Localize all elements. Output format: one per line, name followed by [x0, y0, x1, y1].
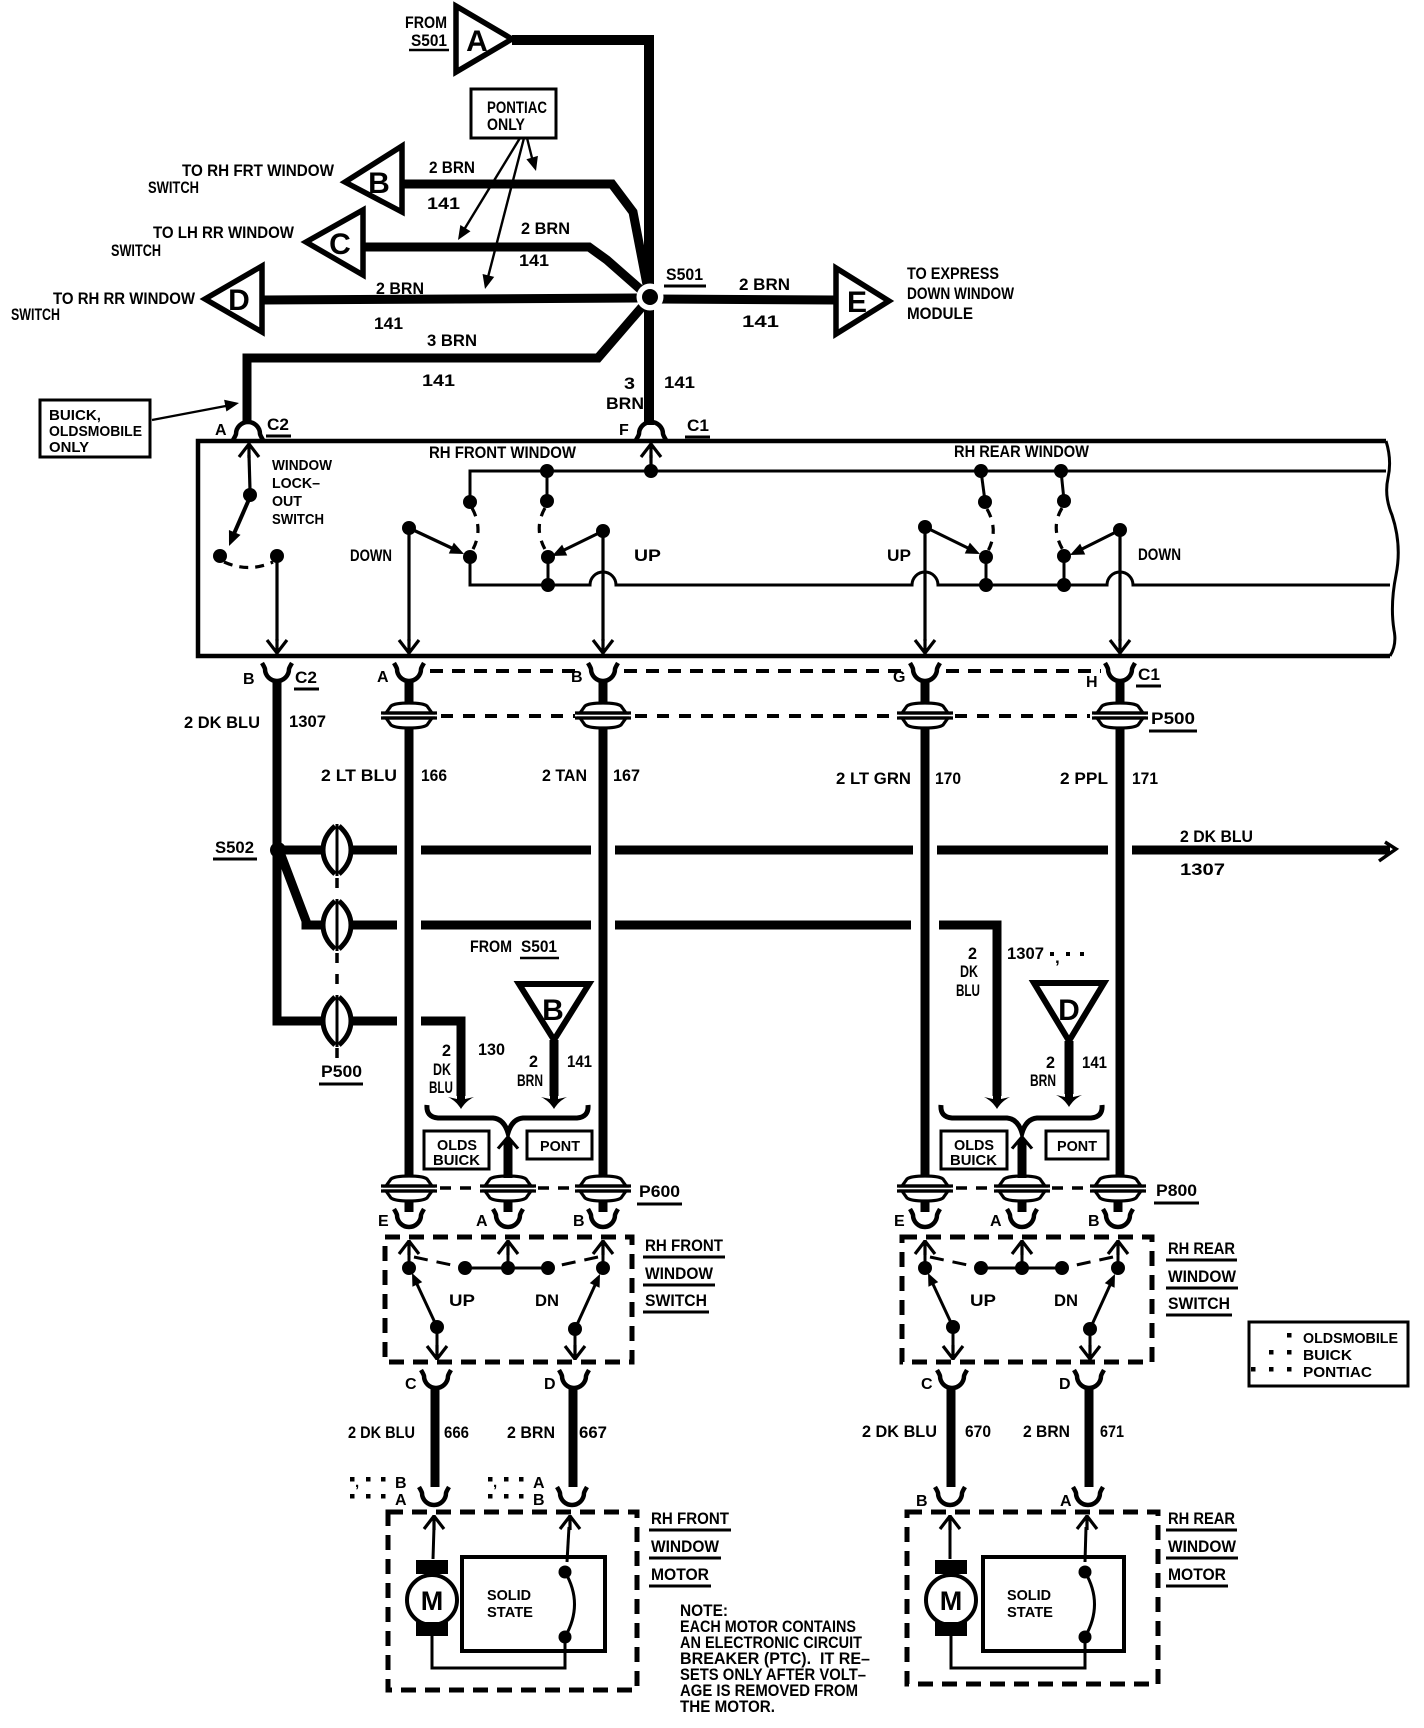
splice S501 — [637, 284, 664, 311]
label 2 DK BLU / 130 (front drop) — [429, 1040, 505, 1097]
svg-text:B: B — [916, 1493, 928, 1510]
svg-text:RH REAR WINDOW: RH REAR WINDOW — [954, 442, 1090, 461]
C1 feed entry arrow into box — [641, 443, 661, 471]
svg-text:2: 2 — [529, 1052, 538, 1071]
rear switch common bar — [918, 1261, 1125, 1275]
svg-text:A: A — [476, 1213, 488, 1230]
svg-text:DOWN WINDOW: DOWN WINDOW — [907, 284, 1015, 303]
svg-text:B: B — [533, 1492, 545, 1509]
label FROM S501 — [405, 13, 449, 50]
front switch output cups C D — [405, 1370, 451, 1393]
svg-text:TO RH RR WINDOW: TO RH RR WINDOW — [53, 289, 196, 308]
svg-text:B: B — [542, 994, 564, 1027]
label 2 BRN 667 — [507, 1423, 607, 1442]
label 2 BRN 141 (wire B) — [427, 158, 475, 213]
svg-text:THE MOTOR.: THE MOTOR. — [680, 1697, 775, 1716]
svg-text:D: D — [1059, 1376, 1071, 1393]
svg-text:F: F — [619, 422, 629, 439]
svg-text:BUICK: BUICK — [433, 1152, 480, 1169]
label WINDOW LOCK-OUT SWITCH — [272, 457, 333, 528]
svg-text:E: E — [847, 286, 867, 319]
svg-text:2 DK BLU: 2 DK BLU — [348, 1423, 415, 1442]
svg-text:667: 667 — [579, 1423, 607, 1442]
svg-text:2: 2 — [1046, 1053, 1055, 1072]
front DOWN throw arm and output — [399, 521, 467, 654]
svg-text:TO EXPRESS: TO EXPRESS — [907, 264, 999, 283]
svg-text:670: 670 — [965, 1422, 991, 1441]
svg-text:RH REAR: RH REAR — [1168, 1509, 1235, 1528]
svg-text:MODULE: MODULE — [907, 304, 973, 323]
svg-text:MOTOR: MOTOR — [1168, 1565, 1226, 1584]
svg-text:BUICK: BUICK — [950, 1152, 997, 1169]
window lockout switch blade — [223, 497, 250, 548]
svg-text:BUICK: BUICK — [1303, 1347, 1352, 1364]
wire 2 DK BLU 666 — [431, 1387, 440, 1487]
svg-text:BLU: BLU — [956, 981, 980, 1000]
svg-text:141: 141 — [742, 312, 779, 331]
label 2 PPL 171 — [1060, 769, 1158, 788]
inline connector P500 (bus 3) — [323, 995, 351, 1047]
svg-text:171: 171 — [1132, 769, 1158, 788]
svg-text:WINDOW: WINDOW — [1168, 1267, 1237, 1286]
inline connector P600 pin A — [480, 1176, 536, 1201]
inline connector P500 pin G — [897, 703, 953, 728]
svg-text:OLDSMOBILE: OLDSMOBILE — [49, 423, 142, 440]
motor M2 (rear) — [926, 1560, 976, 1636]
svg-text:FROM: FROM — [470, 937, 512, 956]
svg-text:A: A — [215, 422, 227, 439]
svg-text:166: 166 — [421, 766, 447, 785]
connector half pin H — [1086, 663, 1135, 691]
label FROM S501 — [470, 937, 559, 958]
switch feed top rail — [470, 464, 1386, 502]
dashed P500 plane vertical — [335, 878, 339, 1058]
svg-text:WINDOW: WINDOW — [645, 1264, 714, 1283]
inline connector P800 pin E — [897, 1176, 953, 1201]
svg-text:P500: P500 — [321, 1062, 362, 1081]
wire E 2 BRN 141 — [655, 299, 836, 300]
RH front window dashed throw arcs — [472, 508, 546, 551]
svg-text:2 BRN: 2 BRN — [521, 219, 570, 238]
dashed connector-row line — [430, 669, 1101, 673]
wire H down to P800 — [1116, 728, 1125, 1176]
svg-text:BUICK,: BUICK, — [49, 407, 101, 424]
svg-text:A: A — [395, 1492, 407, 1509]
label RH FRONT WINDOW SWITCH — [643, 1236, 725, 1312]
P800 cup pins E A B — [894, 1200, 940, 1230]
svg-text:RH FRONT: RH FRONT — [645, 1236, 724, 1255]
svg-text:OLDSMOBILE: OLDSMOBILE — [1303, 1330, 1398, 1347]
svg-text:PONT: PONT — [1057, 1138, 1097, 1155]
svg-text:SWITCH: SWITCH — [148, 178, 199, 197]
wire from S502 to front feed (bottom) — [277, 855, 474, 1109]
svg-text:C: C — [921, 1376, 933, 1393]
svg-text:D: D — [544, 1376, 556, 1393]
svg-text:A: A — [466, 25, 488, 58]
front switch throw blades — [407, 1271, 447, 1360]
motor bottom wire (front) — [432, 1636, 565, 1668]
RH rear window dashed throw arcs — [987, 508, 1063, 551]
svg-text:2 LT BLU: 2 LT BLU — [321, 766, 397, 785]
svg-text:SOLID: SOLID — [487, 1587, 531, 1604]
merge brace (front) — [427, 1105, 588, 1133]
svg-text:1307: 1307 — [1007, 944, 1044, 963]
rear UP throw arm and output — [915, 520, 983, 654]
wire D 2 BRN 141 — [262, 298, 645, 300]
svg-text:C2: C2 — [267, 415, 289, 434]
connector half C2 (top, pin A) — [215, 415, 291, 440]
label S502 — [213, 838, 257, 859]
connector triangle D (rear feed) — [1034, 983, 1104, 1041]
labels UP DN (rear switch) — [970, 1291, 1078, 1310]
label TO LH RR WINDOW SWITCH — [111, 223, 295, 260]
svg-text:S501: S501 — [521, 937, 557, 956]
svg-text:ONLY: ONLY — [487, 115, 526, 134]
make legend box — [1249, 1322, 1408, 1386]
svg-text:671: 671 — [1100, 1422, 1124, 1441]
motor entry arrows — [424, 1515, 580, 1562]
svg-text:E: E — [378, 1213, 389, 1230]
wire from A to S501 (2 BRN vertical trunk) — [512, 40, 649, 425]
svg-text:STATE: STATE — [487, 1604, 533, 1621]
svg-text:DK: DK — [433, 1060, 452, 1079]
label RH REAR WINDOW SWITCH — [1166, 1239, 1238, 1315]
svg-text:P600: P600 — [639, 1182, 680, 1201]
lockout output wire to pin B — [267, 559, 287, 654]
NOTE text block — [680, 1601, 870, 1716]
connector half C1 (top, pin F) — [619, 416, 710, 440]
wire 2 BRN 141 from triangle D — [1056, 1041, 1082, 1107]
svg-text:C1: C1 — [687, 416, 709, 435]
svg-text:SOLID: SOLID — [1007, 1587, 1051, 1604]
wire B down to P600 — [599, 728, 608, 1176]
svg-text:C2: C2 — [295, 668, 317, 687]
motor M1 (front) — [407, 1560, 457, 1636]
label S501 — [664, 265, 706, 286]
wire A down to P600 — [405, 728, 414, 1176]
svg-text:WINDOW: WINDOW — [1168, 1537, 1237, 1556]
svg-text:C1: C1 — [1138, 665, 1160, 684]
OLDS BUICK tag box (front) — [424, 1131, 489, 1169]
svg-text:A: A — [990, 1213, 1002, 1230]
svg-text:2 BRN: 2 BRN — [507, 1423, 555, 1442]
label 2 TAN 167 — [542, 766, 640, 785]
label P600 — [637, 1182, 682, 1204]
RH rear window switch dashed box — [902, 1237, 1152, 1362]
merged stub to pin A (rear) — [1012, 1136, 1032, 1178]
svg-text:DK: DK — [960, 962, 979, 981]
wire 2 DK BLU 1307 bus (top) — [284, 842, 1396, 861]
svg-text:RH REAR: RH REAR — [1168, 1239, 1235, 1258]
svg-text:E: E — [894, 1213, 905, 1230]
svg-text:130: 130 — [478, 1040, 505, 1059]
wire C 2 BRN 141 — [363, 247, 648, 296]
svg-text:SWITCH: SWITCH — [1168, 1294, 1230, 1313]
label 2 DK BLU 1307 (bus right) — [1180, 827, 1253, 879]
RH rear window switch pivots — [978, 471, 1071, 509]
svg-text:SWITCH: SWITCH — [11, 305, 60, 324]
svg-text:UP: UP — [634, 546, 661, 565]
svg-text:WINDOW: WINDOW — [651, 1537, 720, 1556]
callout arrow to wire D — [479, 138, 524, 290]
front switch open-contact ticks — [414, 1257, 598, 1267]
svg-text:UP: UP — [449, 1291, 475, 1310]
svg-text:B: B — [368, 167, 390, 200]
svg-text:FROM: FROM — [405, 13, 447, 32]
label 2 BRN 141 (wire D) — [374, 279, 424, 333]
front switch common bar — [402, 1261, 610, 1275]
svg-text:P500: P500 — [1151, 709, 1195, 728]
svg-text:B: B — [1088, 1213, 1100, 1230]
PTC breaker contacts (front) — [559, 1566, 575, 1644]
PONT tag box (front) — [527, 1131, 592, 1159]
window lockout switch pivot — [243, 488, 257, 502]
svg-text:S502: S502 — [215, 838, 254, 857]
RH front window switch pivots — [463, 471, 554, 509]
connector half pin A — [377, 663, 424, 686]
splice S502 — [270, 842, 286, 858]
label 2 BRN 671 — [1023, 1422, 1124, 1441]
svg-text:LOCK–: LOCK– — [272, 475, 320, 492]
svg-text:2 PPL: 2 PPL — [1060, 769, 1108, 788]
svg-text:SWITCH: SWITCH — [111, 241, 161, 260]
connector triangle B — [345, 146, 402, 212]
rear switch throw blades — [923, 1271, 963, 1360]
svg-text:PONT: PONT — [540, 1138, 580, 1155]
svg-text:141: 141 — [567, 1052, 592, 1071]
label 2 BRN 141 (front drop) — [517, 1052, 592, 1090]
inline connector P800 pin B — [1090, 1176, 1146, 1201]
svg-text:DN: DN — [1054, 1291, 1078, 1310]
wire 3 BRN 141 to C2 — [247, 300, 648, 424]
front motor input cups — [419, 1487, 587, 1505]
connector triangle E — [836, 268, 889, 334]
svg-text:3: 3 — [624, 374, 635, 393]
svg-text:M: M — [940, 1586, 963, 1616]
label 2 DK BLU 1307 (lockout wire) — [184, 712, 326, 732]
svg-text:167: 167 — [613, 766, 640, 785]
label P500 (mid) — [319, 1062, 363, 1084]
svg-text:2: 2 — [442, 1041, 451, 1060]
label 2 LT BLU 166 — [321, 766, 447, 785]
svg-text:DOWN: DOWN — [350, 546, 392, 565]
svg-text:MOTOR: MOTOR — [651, 1565, 709, 1584]
make-code pin marks (right wire) — [488, 1474, 545, 1509]
P600 cup pins E A B — [378, 1200, 424, 1230]
svg-text:ONLY: ONLY — [49, 439, 89, 456]
svg-text:BRN: BRN — [606, 394, 644, 413]
inline connector P500 (bus 2) — [323, 899, 351, 951]
master switch box outline (torn right edge) — [198, 441, 1398, 656]
svg-text:B: B — [243, 671, 255, 688]
dashed P500 plane line — [441, 714, 1090, 718]
svg-text:141: 141 — [1082, 1053, 1107, 1072]
svg-text:D: D — [228, 284, 250, 317]
PTC breaker contacts (rear) — [1079, 1566, 1095, 1644]
svg-text:A: A — [533, 1475, 545, 1492]
svg-text:170: 170 — [935, 769, 961, 788]
inline connector P500 pin H — [1092, 703, 1148, 728]
window lockout dashed throw arc — [224, 562, 273, 568]
label 3 BRN 141 (horizontal) — [422, 331, 477, 390]
svg-text:BRN: BRN — [517, 1071, 543, 1090]
connector triangle C — [306, 210, 363, 275]
RH front window contacts — [463, 550, 555, 585]
window lockout contacts — [213, 549, 227, 563]
wire G down to P800 — [921, 728, 930, 1176]
svg-text:141: 141 — [664, 373, 695, 392]
svg-text:1307: 1307 — [289, 712, 326, 731]
wire 2 DK BLU 670 — [947, 1387, 956, 1487]
svg-text:2 BRN: 2 BRN — [739, 275, 790, 294]
label 1307 with make dots (rear drop) — [1007, 944, 1084, 967]
connector half pin B of C2 — [243, 663, 292, 688]
PONTIAC ONLY callout box — [471, 89, 556, 138]
motor bottom wire (rear) — [951, 1636, 1085, 1668]
svg-text:H: H — [1086, 674, 1098, 691]
svg-text:2: 2 — [968, 944, 977, 963]
inline connector P500 pin B — [575, 703, 631, 728]
motor entry arrows (rear) — [940, 1515, 1097, 1562]
svg-text:C: C — [405, 1376, 417, 1393]
svg-text:2 LT GRN: 2 LT GRN — [836, 769, 911, 788]
rear motor input cups B A — [916, 1487, 965, 1510]
label P500 (right) — [1149, 709, 1197, 731]
wire stubs cup to oval — [277, 680, 1120, 845]
label 2 DK BLU (rear drop) — [956, 944, 980, 1000]
svg-text:TO LH RR WINDOW: TO LH RR WINDOW — [153, 223, 295, 242]
svg-text:A: A — [1060, 1493, 1072, 1510]
svg-text:666: 666 — [444, 1423, 469, 1442]
inline connector P600 pin B — [575, 1176, 631, 1201]
C2 feed entry arrow into box — [239, 443, 259, 490]
label 2 LT GRN 170 — [836, 769, 961, 788]
svg-text:141: 141 — [427, 194, 460, 213]
BUICK OLDSMOBILE ONLY callout box — [40, 400, 150, 457]
svg-text:2 TAN: 2 TAN — [542, 766, 587, 785]
dashed P600 plane line — [440, 1186, 575, 1190]
svg-text:UP: UP — [970, 1291, 996, 1310]
inline connector P500 pin A — [381, 703, 437, 728]
callout arrow from BUICK box to C2 wire — [152, 397, 240, 420]
solid state module box (front) — [462, 1557, 605, 1651]
wire 2 BRN 671 — [1085, 1387, 1094, 1487]
label TO EXPRESS DOWN WINDOW MODULE — [907, 264, 1015, 323]
svg-text:2 DK BLU: 2 DK BLU — [184, 713, 260, 732]
callout arrow to wire B — [526, 138, 541, 173]
svg-text:,: , — [355, 1474, 359, 1491]
svg-text:SWITCH: SWITCH — [272, 511, 324, 528]
svg-text:2 DK BLU: 2 DK BLU — [1180, 827, 1253, 846]
inline connector P600 pin E — [381, 1176, 437, 1201]
connector triangle A — [456, 6, 512, 72]
callout arrow to wire C — [453, 138, 520, 243]
svg-text:2 BRN: 2 BRN — [1023, 1422, 1070, 1441]
RH front window switch dashed box — [385, 1237, 632, 1362]
svg-text:B: B — [573, 1213, 585, 1230]
label P800 — [1154, 1181, 1199, 1203]
svg-text:RH FRONT: RH FRONT — [651, 1509, 730, 1528]
svg-text:141: 141 — [519, 251, 549, 270]
svg-text:TO RH FRT WINDOW: TO RH FRT WINDOW — [182, 161, 335, 180]
svg-text:C: C — [329, 228, 351, 261]
switch output bottom rail with crossovers — [470, 557, 1390, 592]
rear switch output cups C D — [921, 1370, 967, 1393]
inline connector P500 (bus 1) — [323, 824, 351, 876]
label C1 — [1136, 665, 1161, 686]
svg-text:141: 141 — [422, 371, 455, 390]
connector triangle B (from S501) — [519, 984, 589, 1040]
svg-text:,: , — [493, 1474, 497, 1491]
merged stub to pin A (front) — [498, 1136, 518, 1178]
label RH FRONT WINDOW MOTOR — [649, 1509, 731, 1586]
svg-text:,: , — [1055, 948, 1060, 967]
svg-text:2 BRN: 2 BRN — [376, 279, 424, 298]
svg-text:BLU: BLU — [429, 1078, 453, 1097]
svg-text:STATE: STATE — [1007, 1604, 1053, 1621]
label 2 BRN 141 (wire C) — [519, 219, 570, 270]
connector half pin G — [893, 663, 940, 686]
front UP throw arm and output — [549, 524, 613, 654]
svg-text:DN: DN — [535, 1291, 559, 1310]
solid state module box (rear) — [983, 1557, 1124, 1651]
rear switch open-contact ticks — [930, 1257, 1113, 1267]
svg-text:141: 141 — [374, 314, 403, 333]
label TO RH RR WINDOW SWITCH — [11, 289, 196, 324]
svg-text:P800: P800 — [1156, 1181, 1197, 1200]
label 2 DK BLU 670 — [862, 1422, 991, 1441]
label C2 — [294, 668, 319, 689]
svg-text:S501: S501 — [666, 265, 703, 284]
svg-text:PONTIAC: PONTIAC — [1303, 1364, 1372, 1381]
wire 2 BRN 141 from triangle B — [541, 1040, 567, 1109]
merge brace (rear) — [941, 1105, 1102, 1133]
connector half pin B — [571, 663, 618, 686]
make-code pin marks (left wire) — [350, 1474, 407, 1509]
svg-text:RH FRONT WINDOW: RH FRONT WINDOW — [429, 443, 577, 462]
wire from S502 to rear feed (middle) — [281, 855, 1010, 1109]
label TO RH FRT WINDOW SWITCH — [148, 161, 335, 197]
svg-text:B: B — [395, 1475, 407, 1492]
label 3 BRN 141 (at C1) — [606, 373, 695, 413]
PONT tag box (rear) — [1046, 1131, 1108, 1159]
wire 2 BRN 667 — [569, 1387, 578, 1487]
RH front window motor dashed box — [388, 1512, 637, 1690]
wire B 2 BRN 141 — [402, 184, 649, 295]
entry arrows E A B (rear) — [915, 1240, 1128, 1266]
dashed P800 plane line — [956, 1186, 1088, 1190]
OLDS BUICK tag box (rear) — [941, 1131, 1007, 1169]
svg-text:OUT: OUT — [272, 493, 302, 510]
svg-text:2 DK BLU: 2 DK BLU — [862, 1422, 937, 1441]
svg-text:1307: 1307 — [1180, 860, 1225, 879]
svg-text:SWITCH: SWITCH — [645, 1291, 707, 1310]
svg-text:S501: S501 — [411, 31, 447, 50]
labels UP DN (front switch) — [449, 1291, 559, 1310]
label 2 BRN 141 (rear drop) — [1030, 1053, 1107, 1090]
svg-text:A: A — [377, 669, 389, 686]
label 2 DK BLU 666 — [348, 1423, 469, 1442]
RH rear window contacts — [979, 549, 1071, 585]
rear DOWN throw arm and output — [1067, 523, 1130, 654]
svg-text:2 BRN: 2 BRN — [429, 158, 475, 177]
svg-text:M: M — [421, 1586, 444, 1616]
connector triangle D — [205, 266, 262, 332]
label RH REAR WINDOW MOTOR — [1166, 1509, 1238, 1586]
svg-text:WINDOW: WINDOW — [272, 457, 333, 474]
svg-text:DOWN: DOWN — [1138, 545, 1181, 564]
inline connector P800 pin A — [994, 1176, 1050, 1201]
